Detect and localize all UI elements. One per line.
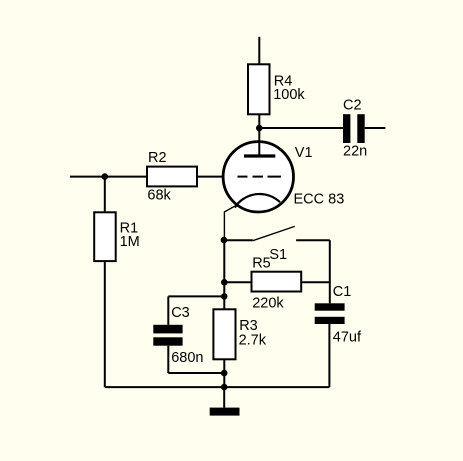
wire output	[365, 127, 386, 129]
svg-text:R5: R5	[252, 256, 271, 272]
cathode arc	[235, 194, 280, 208]
ground	[210, 387, 240, 416]
anode plate	[244, 154, 275, 157]
svg-text:220k: 220k	[252, 296, 284, 312]
node C3 top junction	[221, 293, 228, 300]
tube V1	[223, 128, 344, 212]
svg-text:R2: R2	[148, 150, 167, 166]
svg-text:ECC 83: ECC 83	[294, 192, 345, 208]
svg-text:68k: 68k	[147, 188, 171, 204]
capacitor C2	[343, 97, 367, 159]
node ground junction	[221, 384, 228, 391]
resistor R2	[147, 150, 197, 204]
switch S1	[224, 226, 330, 263]
svg-text:C2: C2	[343, 97, 362, 113]
wire supply top	[258, 37, 260, 65]
svg-text:C1: C1	[333, 284, 352, 300]
wire cathode lead	[224, 205, 237, 240]
capacitor C3	[153, 296, 224, 373]
svg-text:47uf: 47uf	[333, 329, 362, 345]
svg-text:100k: 100k	[273, 87, 305, 103]
node C3 bottom junction	[221, 370, 228, 377]
resistor R5	[224, 256, 329, 312]
grid dashes	[238, 176, 282, 178]
svg-text:C3: C3	[171, 305, 190, 321]
wire anode to C2	[259, 127, 343, 129]
svg-text:1M: 1M	[120, 234, 140, 250]
resistor R3	[213, 309, 266, 359]
node R5 junction	[221, 279, 228, 286]
capacitor C1	[315, 284, 362, 387]
resistor R4	[248, 64, 305, 128]
wire bottom rail	[105, 386, 330, 388]
svg-text:S1: S1	[269, 247, 287, 263]
node anode junction	[256, 125, 263, 132]
wire switch to C1	[329, 240, 331, 303]
resistor R1	[94, 177, 140, 388]
svg-text:2.7k: 2.7k	[239, 333, 267, 349]
node cathode junction	[221, 237, 228, 244]
svg-text:V1: V1	[295, 145, 313, 161]
svg-text:22n: 22n	[343, 144, 367, 160]
wire cathode bus	[223, 240, 225, 388]
node input junction	[102, 173, 109, 180]
wire input grid	[70, 176, 224, 178]
svg-text:680n: 680n	[171, 350, 203, 366]
wire anode lead	[258, 128, 260, 156]
